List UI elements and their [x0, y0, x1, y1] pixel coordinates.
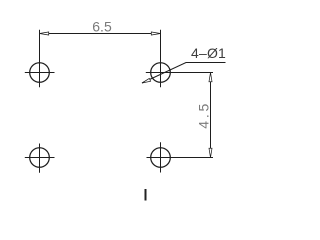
- dimension 4.5 bottom arrowhead: [209, 148, 212, 157]
- hole BR centerline horizontal / extension line to 4.5 dimension: [147, 157, 214, 159]
- hole TR circle: [151, 63, 171, 83]
- dimension 4.5 line: [210, 73, 212, 158]
- hole TL circle: [30, 63, 50, 83]
- hole TR centerline horizontal / extension line to 4.5 dimension: [146, 72, 213, 74]
- dimension 6.5 right arrowhead: [151, 32, 160, 35]
- svg-text:4–Ø1: 4–Ø1: [191, 45, 226, 61]
- hole TL centerline vertical / extension line to 6.5 dimension: [39, 30, 41, 88]
- svg-text:4.5: 4.5: [196, 101, 212, 129]
- dimension 4.5 top arrowhead: [209, 73, 212, 82]
- hole BL circle: [30, 148, 50, 168]
- dimension 6.5 left arrowhead: [40, 32, 49, 35]
- hole TL centerline horizontal: [25, 72, 55, 74]
- hole BL centerline vertical: [39, 144, 41, 173]
- svg-text:6.5: 6.5: [92, 19, 112, 35]
- leader line for hole callout: [142, 63, 226, 84]
- hole TR centerline vertical / extension line to 6.5 dimension: [160, 30, 162, 88]
- hole BR circle: [151, 148, 171, 168]
- hole BL centerline horizontal: [25, 157, 55, 159]
- small tick mark bottom center: [145, 189, 147, 201]
- dimension 6.5 line: [40, 33, 161, 35]
- hole BR centerline vertical: [160, 142, 162, 172]
- leader arrowhead: [142, 78, 151, 83]
